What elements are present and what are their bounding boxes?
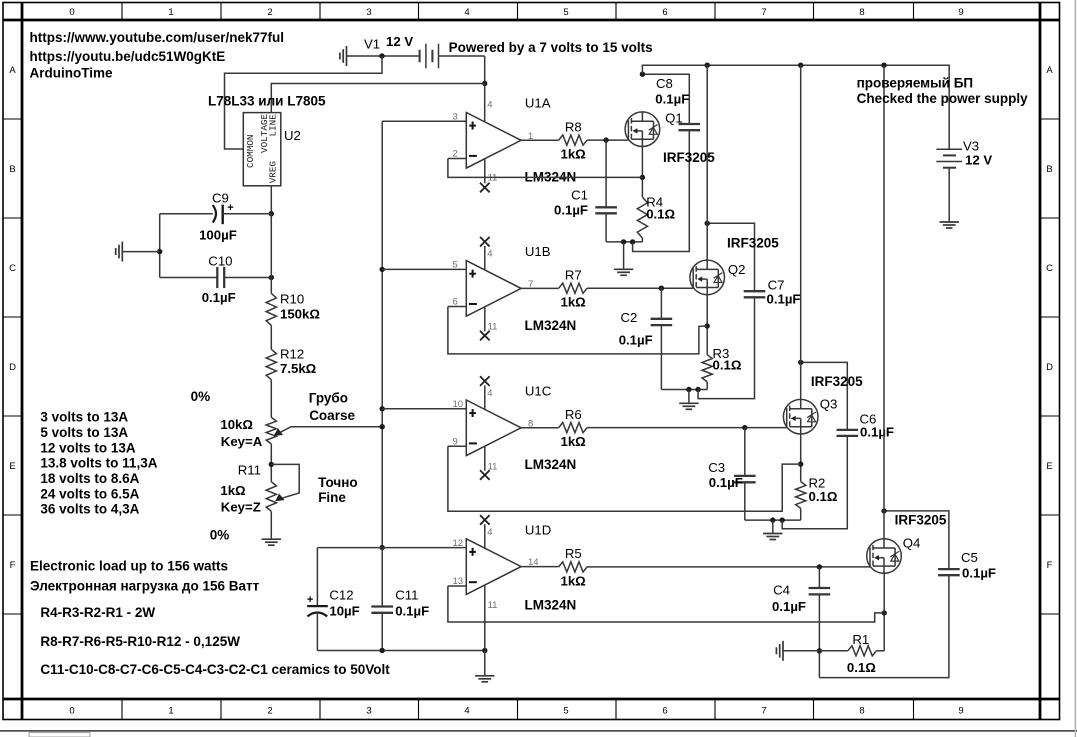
svg-text:B: B: [9, 164, 15, 175]
svg-text:150kΩ: 150kΩ: [280, 307, 320, 322]
svg-text:R7: R7: [565, 268, 582, 283]
svg-text:Electronic load up to 156 watt: Electronic load up to 156 watts: [30, 558, 228, 573]
svg-text:Checked the power supply: Checked the power supply: [857, 91, 1029, 106]
svg-text:13.8 volts to 11,3A: 13.8 volts to 11,3A: [40, 456, 157, 471]
svg-text:12 V: 12 V: [386, 34, 413, 49]
svg-text:0.1µF: 0.1µF: [860, 425, 894, 440]
svg-text:7: 7: [528, 279, 533, 290]
svg-text:Q1: Q1: [665, 110, 683, 125]
svg-text:0.1µF: 0.1µF: [554, 203, 588, 218]
svg-text:C1: C1: [571, 188, 588, 203]
svg-text:U1B: U1B: [525, 244, 551, 259]
svg-text:11: 11: [488, 600, 498, 611]
svg-text:0.1Ω: 0.1Ω: [646, 207, 675, 222]
svg-text:0.1µF: 0.1µF: [772, 599, 806, 614]
svg-text:R10: R10: [280, 292, 304, 307]
svg-text:10µF: 10µF: [329, 604, 359, 619]
svg-text:4: 4: [464, 706, 469, 717]
svg-text:C5: C5: [961, 550, 978, 565]
svg-text:4: 4: [487, 100, 492, 111]
svg-text:2: 2: [267, 706, 272, 717]
svg-text:24 volts to 6.5A: 24 volts to 6.5A: [40, 486, 139, 501]
svg-text:36 volts to 4,3A: 36 volts to 4,3A: [40, 502, 139, 517]
svg-text:Электронная нагрузка до 156 Ва: Электронная нагрузка до 156 Ватт: [30, 578, 260, 593]
svg-text:4: 4: [487, 248, 492, 259]
svg-text:11: 11: [488, 322, 498, 333]
svg-text:12 volts to 13A: 12 volts to 13A: [40, 440, 136, 455]
svg-text:https://youtu.be/udc51W0gKtE: https://youtu.be/udc51W0gKtE: [30, 49, 226, 64]
svg-text:R12: R12: [280, 346, 304, 361]
svg-text:4: 4: [487, 388, 492, 399]
svg-text:5: 5: [563, 7, 568, 18]
svg-text:0.1µF: 0.1µF: [709, 475, 743, 490]
svg-text:LM324N: LM324N: [525, 318, 577, 333]
svg-text:C11-C10-C8-C7-C6-C5-C4-C3-C2-C: C11-C10-C8-C7-C6-C5-C4-C3-C2-C1 ceramics…: [40, 662, 390, 677]
svg-text:0%: 0%: [191, 389, 211, 404]
svg-text:V3: V3: [963, 139, 979, 154]
svg-text:14: 14: [528, 557, 539, 568]
svg-text:проверяемый БП: проверяемый БП: [857, 76, 974, 91]
svg-text:1: 1: [168, 7, 173, 18]
svg-text:U1D: U1D: [525, 523, 551, 538]
svg-text:Q4: Q4: [903, 536, 921, 551]
svg-text:10: 10: [453, 399, 464, 410]
svg-text:7: 7: [761, 706, 766, 717]
svg-text:R1: R1: [852, 632, 869, 647]
svg-text:12 V: 12 V: [965, 153, 992, 168]
svg-text:C3: C3: [708, 460, 725, 475]
svg-text:C7: C7: [768, 278, 785, 293]
svg-text:R5: R5: [565, 546, 582, 561]
svg-text:3: 3: [366, 7, 371, 18]
svg-text:7.5kΩ: 7.5kΩ: [280, 361, 317, 376]
svg-text:9: 9: [958, 706, 963, 717]
svg-text:10kΩ: 10kΩ: [220, 417, 253, 432]
svg-text:Key=Z: Key=Z: [221, 499, 261, 514]
svg-text:5 volts to 13A: 5 volts to 13A: [40, 425, 128, 440]
svg-text:https://www.youtube.com/user/n: https://www.youtube.com/user/nek77ful: [30, 30, 285, 45]
svg-text:4: 4: [464, 7, 469, 18]
svg-text:C4: C4: [773, 583, 790, 598]
svg-text:VREG: VREG: [267, 161, 278, 183]
svg-text:C10: C10: [208, 254, 232, 269]
svg-text:1kΩ: 1kΩ: [220, 483, 246, 498]
svg-text:9: 9: [958, 7, 963, 18]
svg-text:0: 0: [69, 7, 74, 18]
svg-text:5: 5: [563, 706, 568, 717]
svg-text:1: 1: [168, 706, 173, 717]
svg-text:U1C: U1C: [525, 383, 552, 398]
svg-text:4: 4: [487, 527, 492, 538]
svg-text:Key=A: Key=A: [221, 434, 263, 449]
svg-text:6: 6: [662, 7, 667, 18]
svg-text:C9: C9: [212, 191, 229, 206]
svg-text:LINE: LINE: [268, 114, 279, 137]
svg-text:V1: V1: [364, 37, 380, 52]
svg-text:0.1µF: 0.1µF: [619, 333, 653, 348]
svg-text:F: F: [10, 560, 16, 571]
svg-text:1: 1: [528, 131, 533, 142]
svg-text:C12: C12: [329, 588, 353, 603]
svg-text:12: 12: [453, 538, 464, 549]
svg-text:U2: U2: [284, 128, 301, 143]
svg-text:LM324N: LM324N: [525, 457, 577, 472]
svg-text:1kΩ: 1kΩ: [561, 147, 587, 162]
svg-text:Q3: Q3: [820, 396, 838, 411]
svg-text:0.1Ω: 0.1Ω: [713, 358, 742, 373]
svg-text:3: 3: [366, 706, 371, 717]
svg-text:COMMON: COMMON: [245, 135, 256, 168]
svg-text:C8: C8: [656, 76, 673, 91]
svg-text:D: D: [9, 362, 16, 373]
svg-text:1kΩ: 1kΩ: [561, 295, 587, 310]
svg-text:Q2: Q2: [728, 262, 746, 277]
svg-text:6: 6: [453, 297, 458, 308]
svg-text:0.1µF: 0.1µF: [395, 604, 429, 619]
svg-text:1kΩ: 1kΩ: [561, 434, 587, 449]
svg-text:R11: R11: [238, 462, 261, 477]
svg-text:A: A: [1046, 65, 1053, 76]
svg-text:C: C: [9, 263, 16, 274]
svg-text:R6: R6: [565, 407, 582, 422]
svg-text:3: 3: [453, 112, 458, 123]
svg-text:100µF: 100µF: [199, 228, 237, 243]
svg-text:R8-R7-R6-R5-R10-R12 - 0,125W: R8-R7-R6-R5-R10-R12 - 0,125W: [40, 634, 240, 649]
svg-text:R4-R3-R2-R1 - 2W: R4-R3-R2-R1 - 2W: [40, 605, 155, 620]
svg-text:0.1Ω: 0.1Ω: [847, 660, 876, 675]
svg-text:IRF3205: IRF3205: [895, 513, 947, 528]
svg-text:ArduinoTime: ArduinoTime: [30, 65, 113, 80]
svg-text:2: 2: [453, 149, 458, 160]
svg-text:Грубо: Грубо: [309, 390, 348, 405]
svg-text:U1A: U1A: [525, 95, 551, 110]
svg-text:13: 13: [453, 576, 464, 587]
svg-text:IRF3205: IRF3205: [811, 374, 863, 389]
svg-text:F: F: [1047, 560, 1053, 571]
svg-text:3 volts to 13A: 3 volts to 13A: [40, 410, 128, 425]
svg-text:Точно: Точно: [318, 475, 358, 490]
svg-text:7: 7: [761, 7, 766, 18]
svg-text:C2: C2: [621, 310, 638, 325]
svg-text:0.1µF: 0.1µF: [202, 290, 236, 305]
svg-text:B: B: [1046, 164, 1052, 175]
svg-text:0.1µF: 0.1µF: [962, 565, 996, 580]
svg-text:+: +: [307, 594, 313, 606]
svg-text:Powered by a 7 volts to 15 vol: Powered by a 7 volts to 15 volts: [449, 40, 653, 55]
svg-text:2: 2: [267, 7, 272, 18]
svg-text:1kΩ: 1kΩ: [561, 573, 587, 588]
svg-text:C: C: [1046, 263, 1053, 274]
svg-text:9: 9: [453, 436, 458, 447]
svg-text:Fine: Fine: [318, 490, 346, 505]
svg-text:6: 6: [662, 706, 667, 717]
svg-text:0.1Ω: 0.1Ω: [809, 489, 838, 504]
svg-text:R8: R8: [565, 119, 582, 134]
svg-text:D: D: [1046, 362, 1053, 373]
svg-text:LM324N: LM324N: [525, 598, 577, 613]
svg-text:0.1µF: 0.1µF: [655, 91, 689, 106]
svg-text:8: 8: [528, 418, 533, 429]
svg-text:0: 0: [69, 706, 74, 717]
svg-text:11: 11: [488, 461, 498, 472]
svg-text:5: 5: [453, 260, 458, 271]
svg-text:8: 8: [859, 7, 864, 18]
svg-text:C11: C11: [395, 588, 418, 603]
svg-text:0.1µF: 0.1µF: [767, 292, 801, 307]
svg-text:IRF3205: IRF3205: [727, 235, 779, 250]
svg-text:8: 8: [859, 706, 864, 717]
svg-text:A: A: [9, 65, 16, 76]
svg-text:Coarse: Coarse: [309, 408, 355, 423]
svg-text:L78L33 или L7805: L78L33 или L7805: [208, 94, 326, 109]
svg-text:18 volts to 8.6A: 18 volts to 8.6A: [40, 471, 139, 486]
svg-text:E: E: [9, 461, 15, 472]
svg-text:E: E: [1046, 461, 1052, 472]
svg-text:0%: 0%: [210, 527, 230, 542]
